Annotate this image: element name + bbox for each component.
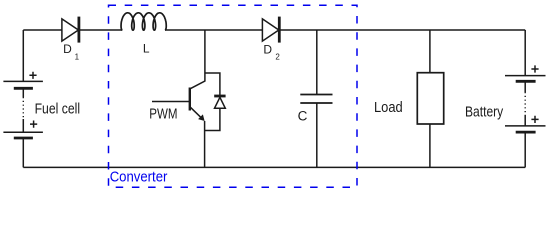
svg-text:PWM: PWM bbox=[149, 106, 177, 123]
transistor Q1 emitter lead bbox=[190, 107, 202, 119]
svg-text:L: L bbox=[143, 42, 150, 56]
fuel cell dotted mid-link bbox=[22, 97, 24, 119]
load bottom lead bbox=[429, 124, 431, 167]
converter boundary dashed box bbox=[109, 5, 358, 187]
capacitor C top lead bbox=[316, 30, 318, 95]
diode D2 triangle bbox=[262, 19, 278, 41]
transistor Q1 base bar bbox=[189, 88, 191, 111]
load resistor rectangle bbox=[417, 73, 443, 124]
fuel cell cell 2 plates bbox=[3, 131, 43, 133]
wire bottom rail bbox=[23, 166, 525, 168]
diode D1 cathode bar bbox=[78, 17, 81, 43]
transistor Q1 base lead (PWM input) bbox=[152, 101, 190, 103]
battery cell 2 plus sign bbox=[531, 116, 538, 123]
battery bottom lead bbox=[524, 132, 526, 167]
transistor Q1 diode branch top jog bbox=[205, 73, 220, 96]
transistor Q1 emitter arrowhead bbox=[198, 114, 205, 121]
transistor Q1 collector lead bbox=[190, 30, 205, 89]
load top lead bbox=[429, 30, 431, 73]
battery cell 1 plus sign bbox=[531, 65, 538, 72]
svg-text:2: 2 bbox=[275, 52, 280, 61]
battery right branch top lead bbox=[524, 30, 526, 76]
battery mid links bbox=[524, 81, 526, 126]
svg-text:Load: Load bbox=[374, 99, 403, 116]
capacitor C plates bbox=[300, 94, 332, 96]
wire top rail bbox=[23, 29, 525, 31]
svg-text:C: C bbox=[298, 108, 308, 123]
battery dotted mid-link bbox=[524, 92, 526, 115]
fuel cell B1 cell 1 plates bbox=[3, 80, 43, 82]
svg-text:Fuel cell: Fuel cell bbox=[35, 100, 81, 117]
diode D1 triangle bbox=[62, 19, 79, 41]
fuel cell cell 2 plus sign bbox=[30, 121, 37, 128]
fuel cell cell 1 plus sign bbox=[29, 72, 36, 79]
diode D2 cathode bar bbox=[278, 17, 281, 43]
transistor Q1 antiparallel diode bottom jog bbox=[205, 108, 220, 130]
antiparallel diode cathode bar bbox=[214, 95, 225, 98]
svg-text:Converter: Converter bbox=[110, 169, 168, 186]
svg-text:1: 1 bbox=[75, 52, 80, 61]
inductor L coil bbox=[121, 13, 166, 30]
battery cell 1 plates bbox=[505, 75, 546, 77]
transistor Q1 emitter vertical wire bbox=[204, 121, 206, 167]
antiparallel diode triangle bbox=[215, 97, 226, 108]
battery cell 2 plates bbox=[505, 125, 546, 127]
wire fuel-cell left branch bbox=[22, 30, 24, 167]
svg-text:Battery: Battery bbox=[465, 103, 504, 120]
svg-text:D: D bbox=[263, 42, 272, 56]
svg-text:D: D bbox=[63, 42, 72, 56]
capacitor C bottom lead bbox=[316, 103, 318, 167]
